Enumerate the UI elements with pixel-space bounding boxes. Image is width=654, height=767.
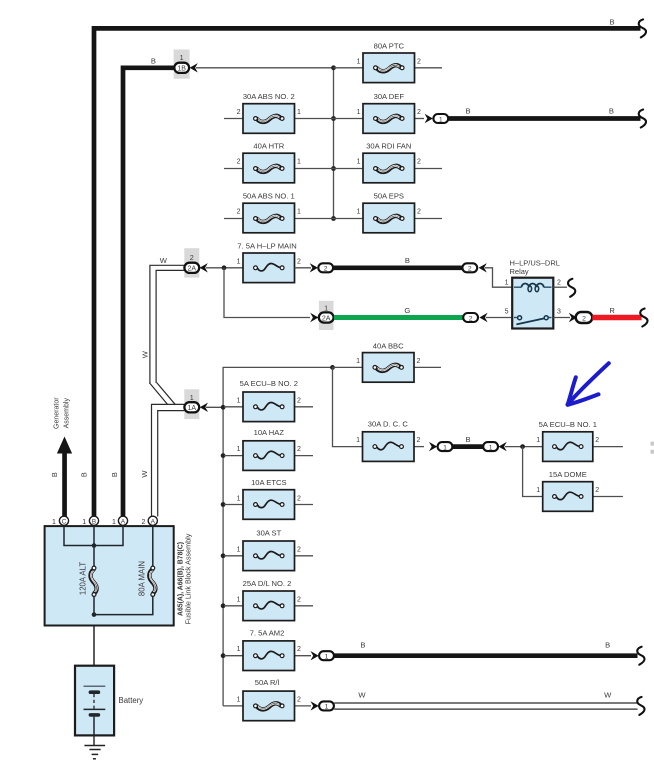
connector oval 1 (DEF output) <box>433 114 448 123</box>
svg-text:5: 5 <box>505 308 509 315</box>
junction dot 1A row <box>221 405 226 410</box>
svg-text:1B: 1B <box>177 66 186 73</box>
wire G: green DRL harness <box>334 315 463 320</box>
svg-text:B: B <box>605 640 610 649</box>
svg-text:2: 2 <box>142 519 146 526</box>
arrowhead into 2A <box>310 313 318 322</box>
svg-text:2: 2 <box>237 109 241 116</box>
wire: 1A to lower bus <box>206 406 224 408</box>
wire B: battery pin B feed, up left side and across page top <box>94 28 641 516</box>
svg-text:1: 1 <box>237 397 241 404</box>
junction dot row1 <box>331 65 336 70</box>
svg-text:2: 2 <box>297 546 301 553</box>
connector oval 1 (DCC out) <box>438 442 453 451</box>
arrowhead into oval 2 (R out) <box>569 313 577 322</box>
svg-text:1: 1 <box>443 444 447 451</box>
svg-text:1: 1 <box>237 496 241 503</box>
arrowhead at ECU-B feed <box>499 442 507 451</box>
junction dot ECU-B/DOME branch <box>520 444 525 449</box>
junction dot battery node <box>92 612 97 617</box>
svg-text:30A RDI FAN: 30A RDI FAN <box>366 142 411 151</box>
wire W: vertical branch to 2A and horizontal into 2A <box>150 265 185 383</box>
svg-text:25A D/L NO. 2: 25A D/L NO. 2 <box>243 579 292 588</box>
junction dot D/L row <box>221 603 226 608</box>
junction dot AM2 row <box>221 653 226 658</box>
svg-text:1: 1 <box>237 446 241 453</box>
arrowhead into AM2 oval <box>311 651 319 660</box>
svg-text:W: W <box>358 691 366 700</box>
svg-text:30A ST: 30A ST <box>256 528 281 537</box>
svg-text:2A: 2A <box>322 315 331 322</box>
svg-text:1: 1 <box>82 519 86 526</box>
svg-text:1: 1 <box>325 704 329 711</box>
connector oval 2 (green/relay side) <box>463 313 478 322</box>
fuse 120A ALT (vertical) <box>91 566 98 596</box>
svg-text:1: 1 <box>237 258 241 265</box>
svg-text:2: 2 <box>469 315 473 322</box>
svg-text:B: B <box>465 107 470 116</box>
svg-text:15A DOME: 15A DOME <box>549 470 587 479</box>
junction dot ST row <box>221 553 226 558</box>
svg-text:B: B <box>151 57 156 66</box>
wire: branch down to DRL 2A connector <box>224 268 310 318</box>
svg-text:2: 2 <box>595 487 599 494</box>
arrowhead at 1B <box>190 63 198 72</box>
svg-text:2: 2 <box>417 209 421 216</box>
svg-text:2: 2 <box>237 209 241 216</box>
wire: ALT fuse to battery node <box>93 596 95 615</box>
svg-text:W: W <box>140 350 149 358</box>
svg-text:1: 1 <box>536 487 540 494</box>
svg-text:1: 1 <box>237 546 241 553</box>
svg-text:10A HAZ: 10A HAZ <box>254 428 285 437</box>
arrowhead at relay coil wire <box>479 263 487 272</box>
svg-text:1: 1 <box>297 159 301 166</box>
internal bus C-B-A <box>64 521 123 546</box>
svg-text:A: A <box>151 519 156 526</box>
svg-text:120A ALT: 120A ALT <box>79 562 88 595</box>
wire B: AM2 harness to right edge <box>334 653 637 658</box>
svg-text:1: 1 <box>325 654 329 661</box>
wire: 2A to H-LP MAIN fuse pin 1 <box>206 267 243 269</box>
svg-text:1: 1 <box>356 437 360 444</box>
relay switch <box>514 317 518 319</box>
svg-text:B: B <box>92 519 97 526</box>
wire B: H-LP harness <box>333 265 462 270</box>
wire W: pin A2 vertical and horizontal into 1A <box>152 404 185 516</box>
svg-text:80A MAIN: 80A MAIN <box>137 561 146 596</box>
svg-text:B: B <box>609 18 614 27</box>
svg-text:7. 5A H–LP MAIN: 7. 5A H–LP MAIN <box>237 241 296 250</box>
svg-text:1: 1 <box>297 109 301 116</box>
wire: BBC feeder across top of lower group <box>223 367 332 706</box>
wire B: DCC short harness <box>453 444 483 449</box>
svg-text:Assembly: Assembly <box>64 398 71 429</box>
svg-text:2: 2 <box>324 266 328 273</box>
wire: vertical bus <box>333 68 335 219</box>
connector oval 2 (R out) <box>576 312 593 323</box>
svg-text:50A R/l: 50A R/l <box>255 678 280 687</box>
wire: block to battery <box>93 626 95 687</box>
svg-text:R: R <box>609 306 615 315</box>
wire W: R/l harness (white wire) to right edge <box>334 702 637 704</box>
wire break curl: top B wire end <box>639 19 646 37</box>
connector oval 2 (relay side) <box>462 263 477 272</box>
svg-text:2: 2 <box>297 397 301 404</box>
wire: to ECU-B NO.1 / DOME branch <box>505 446 543 448</box>
wire: pin A2 down to 80A MAIN <box>152 521 154 566</box>
svg-text:1: 1 <box>357 159 361 166</box>
svg-text:2: 2 <box>297 646 301 653</box>
svg-text:Fusible Link Block Assembly: Fusible Link Block Assembly <box>183 533 192 624</box>
svg-text:2: 2 <box>417 109 421 116</box>
svg-text:1: 1 <box>505 279 509 286</box>
wire: to relay pin 5 <box>486 317 512 319</box>
svg-text:2: 2 <box>237 159 241 166</box>
svg-text:1: 1 <box>237 646 241 653</box>
svg-text:80A PTC: 80A PTC <box>374 41 405 50</box>
svg-text:50A EPS: 50A EPS <box>374 192 404 201</box>
svg-text:2: 2 <box>297 258 301 265</box>
svg-text:2: 2 <box>557 279 561 286</box>
svg-text:G: G <box>404 306 410 315</box>
svg-text:1: 1 <box>357 109 361 116</box>
connector oval 2 (H-LP out) <box>318 263 333 272</box>
svg-text:1: 1 <box>237 596 241 603</box>
svg-text:2: 2 <box>417 358 421 365</box>
svg-text:2: 2 <box>297 446 301 453</box>
wire: fuse to output connector <box>295 267 312 269</box>
wire: relay pin 3 to output oval <box>553 317 570 319</box>
junction dot row3 <box>331 166 336 171</box>
svg-text:2: 2 <box>297 596 301 603</box>
ground <box>93 735 95 746</box>
svg-text:Generator: Generator <box>54 397 61 429</box>
wire: relay pin 2 stub <box>553 286 567 288</box>
arrowhead into R/l oval <box>311 701 319 710</box>
svg-text:B: B <box>360 640 365 649</box>
svg-text:1: 1 <box>190 393 194 402</box>
svg-text:1: 1 <box>489 444 493 451</box>
svg-text:2A: 2A <box>188 266 197 273</box>
svg-text:1: 1 <box>297 209 301 216</box>
svg-text:1: 1 <box>536 437 540 444</box>
svg-text:2: 2 <box>417 58 421 65</box>
connector oval 1 (ECU-B side) <box>483 442 498 451</box>
svg-text:30A DEF: 30A DEF <box>374 92 405 101</box>
junction dot internal bus <box>92 543 97 548</box>
junction dot HAZ row <box>221 453 226 458</box>
svg-text:1: 1 <box>356 358 360 365</box>
wire: to relay pin 1 <box>485 268 512 287</box>
arrowhead at 2A <box>200 263 208 272</box>
svg-text:B: B <box>79 472 88 477</box>
svg-text:1: 1 <box>357 209 361 216</box>
wire: drop to 30A D.C.C <box>333 367 364 446</box>
wire break curl: relay pin 2 <box>568 279 575 297</box>
junction dot row2 <box>331 116 336 121</box>
svg-text:B: B <box>405 256 410 265</box>
page-edge fragment marks <box>651 442 654 446</box>
arrowhead at relay pin 5 wire <box>479 313 487 322</box>
connector oval 1 (R/l out) <box>319 701 334 710</box>
battery cell plates <box>84 685 106 687</box>
connector oval 1 (AM2 out) <box>319 651 334 660</box>
svg-text:2: 2 <box>468 266 472 273</box>
svg-text:1: 1 <box>357 58 361 65</box>
svg-text:B: B <box>50 472 59 477</box>
svg-text:30A D. C. C: 30A D. C. C <box>368 419 409 428</box>
wire B: DEF output across to right edge <box>449 116 641 121</box>
svg-text:3: 3 <box>557 308 561 315</box>
svg-text:2: 2 <box>297 496 301 503</box>
svg-text:2: 2 <box>417 437 421 444</box>
svg-text:H–LP/US–DRL: H–LP/US–DRL <box>510 258 560 267</box>
svg-text:30A ABS NO. 2: 30A ABS NO. 2 <box>243 92 295 101</box>
wire: 1B to top bus <box>196 67 334 69</box>
wire break curl: R wire end <box>640 309 647 327</box>
wire: 80A MAIN to battery node <box>94 596 153 615</box>
junction dot ETCS row <box>221 502 226 507</box>
svg-text:7. 5A AM2: 7. 5A AM2 <box>250 629 285 638</box>
wire B: generator feed with arrow to Generator Assembly <box>62 451 67 517</box>
svg-text:1: 1 <box>112 519 116 526</box>
svg-text:W: W <box>160 256 168 265</box>
svg-text:B: B <box>466 435 471 444</box>
svg-text:5A ECU–B NO. 2: 5A ECU–B NO. 2 <box>240 379 298 388</box>
svg-text:2: 2 <box>595 437 599 444</box>
junction dot (H-LP branch) <box>222 265 227 270</box>
svg-text:2: 2 <box>190 253 194 262</box>
svg-text:2: 2 <box>297 696 301 703</box>
arrowhead into DCC oval <box>429 442 437 451</box>
wire break curl: DEF B wire end <box>639 110 646 128</box>
svg-text:2: 2 <box>582 315 586 322</box>
svg-text:2: 2 <box>417 159 421 166</box>
svg-text:40A BBC: 40A BBC <box>373 341 404 350</box>
wire B: fusible link pin A feed to connector 1B <box>123 68 175 517</box>
svg-text:1: 1 <box>52 519 56 526</box>
arrowhead into DEF output connector <box>425 114 433 123</box>
svg-text:B: B <box>110 472 119 477</box>
junction dot BBC/DCC branch <box>330 365 335 370</box>
svg-text:1: 1 <box>237 696 241 703</box>
svg-text:Battery: Battery <box>119 696 144 705</box>
svg-text:W: W <box>140 470 149 478</box>
svg-text:W: W <box>604 691 612 700</box>
arrowhead at 1A <box>200 403 208 412</box>
svg-text:10A ETCS: 10A ETCS <box>251 478 286 487</box>
wire R: red DRL output <box>592 315 641 320</box>
svg-text:C: C <box>62 519 67 526</box>
wire break curl: AM2 B wire end <box>637 647 644 665</box>
relay coil <box>514 286 522 288</box>
svg-text:50A ABS NO. 1: 50A ABS NO. 1 <box>243 192 295 201</box>
wire W: diagonal jog joining 1A horizontal <box>149 383 167 405</box>
svg-text:A: A <box>121 519 126 526</box>
svg-text:Relay: Relay <box>510 267 529 276</box>
svg-text:1: 1 <box>439 116 443 123</box>
wire: drop to 15A DOME <box>523 447 543 497</box>
svg-text:5A ECU–B NO. 1: 5A ECU–B NO. 1 <box>539 420 597 429</box>
wire: bus to 120A ALT fuse <box>93 546 95 567</box>
svg-text:B: B <box>609 107 614 116</box>
fuse 80A MAIN (vertical) <box>149 566 156 596</box>
junction dot row4 <box>331 216 336 221</box>
svg-text:1A: 1A <box>188 405 197 412</box>
arrowhead into oval 2 <box>310 263 318 272</box>
svg-text:1: 1 <box>180 53 184 62</box>
wire break curl: R/l W wire end <box>637 697 644 715</box>
svg-text:40A HTR: 40A HTR <box>253 142 284 151</box>
